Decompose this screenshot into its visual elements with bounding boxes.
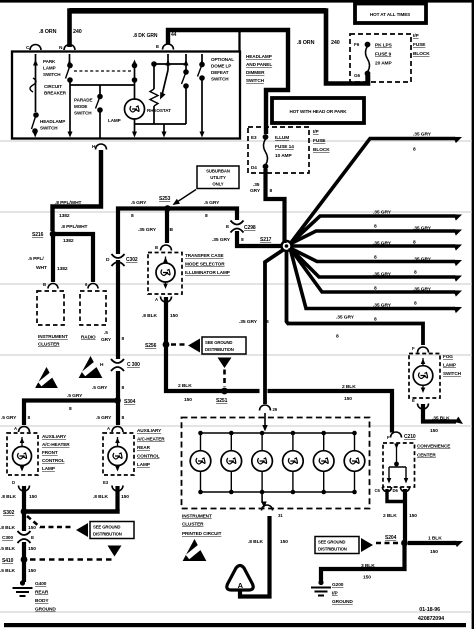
svg-text:GRY: GRY xyxy=(250,188,261,194)
svg-text:.5: .5 xyxy=(104,330,108,336)
svg-text:150: 150 xyxy=(184,397,192,403)
svg-text:REAR: REAR xyxy=(137,445,151,450)
svg-text:FOG: FOG xyxy=(443,354,453,359)
svg-text:A/C-HEATER: A/C-HEATER xyxy=(42,442,70,447)
svg-text:FRONT: FRONT xyxy=(42,450,58,455)
svg-text:SWITCH: SWITCH xyxy=(74,111,92,116)
svg-text:N: N xyxy=(59,45,63,51)
svg-text:DEFEAT: DEFEAT xyxy=(211,70,229,75)
svg-text:C302: C302 xyxy=(126,257,138,263)
svg-text:MODE: MODE xyxy=(74,104,87,109)
svg-text:2 BLK: 2 BLK xyxy=(178,383,192,389)
svg-text:HOT AT ALL TIMES: HOT AT ALL TIMES xyxy=(370,12,410,17)
svg-text:.5 GRY: .5 GRY xyxy=(96,415,112,421)
ground ref arrow down to S410 dashes xyxy=(108,546,122,557)
terminal C xyxy=(30,45,41,51)
svg-text:PRINTED CIRCUIT: PRINTED CIRCUIT xyxy=(182,531,222,536)
svg-text:PARK: PARK xyxy=(43,59,56,64)
svg-text:H: H xyxy=(100,362,104,368)
svg-text:1382: 1382 xyxy=(59,213,70,219)
svg-text:WHT: WHT xyxy=(36,265,47,271)
ESD warning triangle 1 xyxy=(35,367,58,388)
svg-text:OPTIONAL: OPTIONAL xyxy=(211,57,234,62)
svg-text:E: E xyxy=(156,44,160,50)
svg-text:.5 GRY: .5 GRY xyxy=(92,385,108,391)
svg-text:SWITCH: SWITCH xyxy=(246,78,265,83)
svg-text:CONTROL: CONTROL xyxy=(42,458,65,463)
wire 2 BLK 150 from C6/D6 to S204 xyxy=(387,489,404,502)
ground reference triangle A xyxy=(227,566,253,591)
svg-text:B: B xyxy=(43,282,46,287)
svg-text:TRANSFER CASE: TRANSFER CASE xyxy=(185,253,224,258)
ESD warning triangle 3 xyxy=(183,539,207,561)
ESD warning triangle 2 xyxy=(79,356,103,378)
svg-text:DIMMER: DIMMER xyxy=(246,70,265,75)
page border right xyxy=(472,0,474,629)
svg-text:S304: S304 xyxy=(124,399,136,405)
svg-text:INSTRUMENT: INSTRUMENT xyxy=(182,514,212,519)
radio pin 6 xyxy=(88,284,98,289)
splice S216 xyxy=(50,231,57,238)
svg-text:.5 GRY: .5 GRY xyxy=(204,200,220,206)
svg-text:I/P: I/P xyxy=(313,129,319,135)
svg-text:8: 8 xyxy=(122,415,125,421)
svg-text:.35 GRY: .35 GRY xyxy=(212,237,231,243)
transfer case lamp pin B xyxy=(161,245,172,251)
printed circuit lamp 3 xyxy=(260,431,265,436)
svg-text:.8 PPL/WHT: .8 PPL/WHT xyxy=(61,224,88,230)
faint ruled lines xyxy=(0,141,472,612)
svg-text:LAMP: LAMP xyxy=(443,363,456,368)
ground ref from S256 (dashed) xyxy=(171,343,188,346)
svg-text:150: 150 xyxy=(430,549,438,555)
wire .35 GRY 8 branch 2 from S217 xyxy=(290,216,455,244)
svg-text:RHEOSTAT: RHEOSTAT xyxy=(147,108,171,113)
svg-text:44: 44 xyxy=(171,32,177,38)
svg-text:S216: S216 xyxy=(32,232,44,238)
svg-text:8: 8 xyxy=(131,213,134,219)
svg-text:8: 8 xyxy=(122,385,125,391)
svg-text:8: 8 xyxy=(205,213,208,219)
svg-text:ILLUM: ILLUM xyxy=(275,135,289,141)
svg-text:E: E xyxy=(226,224,230,230)
ground G200 I/P ground xyxy=(318,580,323,585)
svg-text:REAR: REAR xyxy=(35,590,49,596)
headlamp switch contacts xyxy=(33,112,39,118)
svg-text:.35: .35 xyxy=(253,182,260,188)
ground ref from S302 (dashed) xyxy=(27,516,74,527)
svg-text:BODY: BODY xyxy=(35,598,49,604)
svg-text:.35 GRY: .35 GRY xyxy=(239,319,258,325)
svg-text:.8 ORN: .8 ORN xyxy=(297,40,315,46)
svg-text:C300: C300 xyxy=(2,535,13,541)
convenience center pin F xyxy=(391,432,402,438)
svg-text:G400: G400 xyxy=(35,581,47,587)
svg-text:150: 150 xyxy=(28,568,36,574)
bottom edge arrow x134 done above; terminal H xyxy=(96,144,107,149)
svg-text:.35 GRY: .35 GRY xyxy=(373,272,392,278)
svg-text:.5 BLK: .5 BLK xyxy=(0,568,15,574)
svg-text:DISTRIBUTION: DISTRIBUTION xyxy=(93,532,122,537)
svg-text:B: B xyxy=(155,245,158,250)
svg-text:AUXILIARY: AUXILIARY xyxy=(42,434,67,439)
svg-text:G200: G200 xyxy=(332,582,344,588)
wire .35 GRY 8 branch 1 from S217 xyxy=(290,139,455,245)
svg-text:I/P: I/P xyxy=(332,591,338,597)
svg-text:.35 GRY: .35 GRY xyxy=(373,210,392,216)
svg-text:DISTRIBUTION: DISTRIBUTION xyxy=(318,547,347,552)
printed circuit lamp 2 xyxy=(229,431,234,436)
fog lamp switch pin F xyxy=(418,347,429,353)
connector C298 pin E xyxy=(231,221,244,225)
svg-text:I/P: I/P xyxy=(413,33,419,39)
svg-text:8: 8 xyxy=(266,319,269,325)
stub from wire to box top edge xyxy=(238,30,240,52)
svg-text:C6: C6 xyxy=(375,488,381,493)
front lamp pin D xyxy=(19,486,30,492)
instrument cluster pin 31 xyxy=(262,505,273,511)
svg-text:LAMP: LAMP xyxy=(108,118,121,123)
splice S251 xyxy=(221,388,228,395)
headlamp switch assembly box xyxy=(12,52,240,139)
svg-text:BREAKER: BREAKER xyxy=(44,91,67,96)
svg-text:31: 31 xyxy=(278,513,283,518)
svg-text:SWITCH: SWITCH xyxy=(443,371,462,376)
svg-text:29: 29 xyxy=(273,407,278,412)
connector C302 pin D xyxy=(112,254,125,258)
wire .8 PPL/WHT 1382 from S216 to radio xyxy=(53,234,93,282)
convenience center box xyxy=(383,443,415,487)
svg-text:C: C xyxy=(26,45,30,51)
radio box xyxy=(80,291,106,325)
wire .35 GRY 8 branch 6 from S217 xyxy=(290,248,455,277)
fog lamp switch pin E xyxy=(418,404,429,410)
svg-text:A: A xyxy=(238,581,244,590)
wire .35 GRY 8 branch 5 from S217 xyxy=(290,248,455,262)
svg-text:FUSE: FUSE xyxy=(413,42,426,48)
terminal E xyxy=(163,44,174,50)
svg-text:150: 150 xyxy=(121,494,129,500)
svg-text:BLOCK: BLOCK xyxy=(313,147,330,153)
rheostat xyxy=(151,61,157,67)
splice S204 xyxy=(401,540,408,547)
svg-text:150: 150 xyxy=(28,546,36,552)
svg-text:8: 8 xyxy=(122,336,125,342)
wire .35 GRY 8 from C298 to splice S217 xyxy=(237,231,281,246)
svg-text:SUBURBAN: SUBURBAN xyxy=(206,169,230,174)
terminal arrow x202 xyxy=(199,60,204,66)
svg-text:LAMP: LAMP xyxy=(43,66,56,71)
svg-text:S410: S410 xyxy=(2,558,14,564)
svg-text:.35 GRY: .35 GRY xyxy=(373,303,392,309)
svg-text:.8 DK GRN: .8 DK GRN xyxy=(133,33,158,39)
svg-text:DISTRIBUTION: DISTRIBUTION xyxy=(205,347,234,352)
dashed ground ref wire from S410 xyxy=(30,558,114,561)
parade mode switch xyxy=(99,85,101,96)
svg-text:AND PANEL: AND PANEL xyxy=(246,62,272,67)
pin 31 wire from bottom bus xyxy=(261,492,263,503)
pin 29 wire into printed circuit bus xyxy=(264,413,266,426)
internal bus to parade switch and lamp xyxy=(70,84,135,86)
svg-text:F: F xyxy=(387,435,390,440)
wire .5 PPL/WHT 1382 from S216 to instrument cluster xyxy=(51,236,55,282)
wire .35 GRY 8 branch 7 from S217 xyxy=(290,248,455,292)
aux a/c-heater front control lamp xyxy=(7,433,38,475)
wire .35 GRY 8 from fuse D4 to splice S217 xyxy=(266,169,285,243)
svg-text:S251: S251 xyxy=(216,398,228,404)
svg-text:.5 PPL/: .5 PPL/ xyxy=(28,256,44,262)
wire .8 ORN 240 from fuse G6 to headlamp switch terminal N xyxy=(70,11,369,84)
svg-text:150: 150 xyxy=(28,525,36,531)
svg-text:.8 BLK: .8 BLK xyxy=(0,525,15,531)
svg-text:.8 ORN: .8 ORN xyxy=(39,29,57,35)
svg-text:UTILITY: UTILITY xyxy=(210,175,226,180)
svg-text:HEADLAMP: HEADLAMP xyxy=(40,119,65,124)
svg-text:MODE SELECTOR: MODE SELECTOR xyxy=(185,262,225,267)
svg-text:10 AMP: 10 AMP xyxy=(275,153,292,159)
wire .35 GRY 8 branch 8 from S217 xyxy=(290,248,455,309)
note box SUBURBAN UTILITY ONLY xyxy=(197,166,239,189)
svg-text:ONLY: ONLY xyxy=(212,182,223,187)
svg-text:PK LPS: PK LPS xyxy=(375,43,393,49)
svg-text:GROUND: GROUND xyxy=(35,607,56,613)
svg-text:E3: E3 xyxy=(251,135,257,140)
svg-text:FUSE 14: FUSE 14 xyxy=(275,144,294,150)
internal bus lamp to dome defeat xyxy=(135,123,187,125)
svg-text:.35 GRY: .35 GRY xyxy=(413,226,432,232)
wire .8 BLK 150 from front lamp to S302 xyxy=(22,486,26,509)
svg-text:2 BLK: 2 BLK xyxy=(342,384,356,390)
printed circuit top bus xyxy=(200,432,355,434)
svg-text:SEE GROUND: SEE GROUND xyxy=(93,525,120,530)
svg-text:420872094: 420872094 xyxy=(418,616,444,622)
svg-text:8: 8 xyxy=(374,224,377,230)
svg-text:.35 GRY: .35 GRY xyxy=(373,241,392,247)
svg-text:20 AMP: 20 AMP xyxy=(375,61,392,67)
svg-text:.8 BLK: .8 BLK xyxy=(248,539,263,545)
svg-text:CONTROL: CONTROL xyxy=(137,454,160,459)
svg-text:RADIO: RADIO xyxy=(81,335,96,340)
svg-text:D6: D6 xyxy=(393,488,399,493)
svg-text:D4: D4 xyxy=(251,165,257,170)
svg-text:LAMP: LAMP xyxy=(42,466,55,471)
svg-text:8: 8 xyxy=(270,188,273,194)
convenience center pin D6 xyxy=(400,487,409,492)
wire .35 BLK 150 from fog lamp switch E xyxy=(423,404,456,422)
wire from terminal C to headlamp switch xyxy=(35,54,37,112)
wire .35 GRY 8 branch 4 from S217 xyxy=(291,244,455,248)
svg-text:8: 8 xyxy=(241,237,244,243)
svg-text:3 BLK: 3 BLK xyxy=(361,563,375,569)
svg-text:2 BLK: 2 BLK xyxy=(383,513,397,519)
wire .35 GRY 8 from S217 down to instrument cluster pin 29 xyxy=(265,250,283,404)
svg-text:.35 BLK: .35 BLK xyxy=(432,416,450,422)
svg-text:A/C-HEATER: A/C-HEATER xyxy=(137,437,165,442)
I/P fuse block with PK LPS fuse 9 (F6/G6) xyxy=(350,34,411,82)
svg-text:150: 150 xyxy=(29,494,37,500)
svg-text:BLOCK: BLOCK xyxy=(413,51,430,57)
mechanical linkage (dashed) xyxy=(74,70,131,72)
svg-text:SEE GROUND: SEE GROUND xyxy=(318,540,345,545)
svg-text:8: 8 xyxy=(414,301,417,307)
svg-text:SEE GROUND: SEE GROUND xyxy=(205,340,232,345)
svg-text:8: 8 xyxy=(69,406,72,412)
svg-text:.35 GRY: .35 GRY xyxy=(138,227,157,233)
svg-text:A: A xyxy=(14,426,17,431)
svg-text:.35 GRY: .35 GRY xyxy=(413,132,432,138)
svg-text:D: D xyxy=(106,257,110,263)
svg-text:8: 8 xyxy=(414,270,417,276)
splice S410 xyxy=(21,556,28,563)
wire .35 GRY 8 branch 3 from S217 xyxy=(290,231,455,244)
ground G400 rear body ground xyxy=(20,580,25,585)
wire 1 BLK 150 from S204 (to right) xyxy=(408,541,456,545)
wire .35 GRY 8 from S217 to fog lamp switch xyxy=(287,251,424,345)
svg-text:150: 150 xyxy=(363,575,371,581)
instrument cluster box xyxy=(37,291,64,325)
instrument cluster pin B xyxy=(48,284,58,289)
wire .5 GRY 8 bus from headlamp switch xyxy=(53,150,102,231)
svg-text:GROUND: GROUND xyxy=(332,599,353,605)
dome defeat pole 2 xyxy=(201,54,203,64)
svg-text:E: E xyxy=(412,398,415,403)
I/P fuse block with ILLUM fuse 14 (E3/D4) xyxy=(248,127,309,173)
svg-text:.35 GRY: .35 GRY xyxy=(413,287,432,293)
svg-text:.5 BLK: .5 BLK xyxy=(0,546,15,552)
svg-text:1 BLK: 1 BLK xyxy=(428,536,442,542)
svg-text:.5 GRY: .5 GRY xyxy=(131,200,147,206)
printed circuit lamp 5 xyxy=(321,431,326,436)
svg-text:CIRCUIT: CIRCUIT xyxy=(44,84,62,89)
svg-text:S302: S302 xyxy=(3,510,15,516)
svg-text:150: 150 xyxy=(280,539,288,545)
svg-text:1382: 1382 xyxy=(57,266,68,272)
svg-text:E: E xyxy=(31,535,35,541)
svg-text:SWITCH: SWITCH xyxy=(211,77,229,82)
svg-text:.8 BLK: .8 BLK xyxy=(1,494,16,500)
svg-text:1382: 1382 xyxy=(63,238,74,244)
svg-text:INSTRUMENT: INSTRUMENT xyxy=(38,334,68,339)
wire 2 BLK 150 from S256 to S251 and convenience center xyxy=(166,346,260,391)
wire .5 GRY 8 from S304 to front aux lamp xyxy=(24,401,118,426)
svg-text:DOME LP: DOME LP xyxy=(211,64,231,69)
svg-text:CONVENIENCE: CONVENIENCE xyxy=(417,444,450,449)
ground ref from S204 (dashed) xyxy=(376,542,399,545)
splice S302 and bus xyxy=(24,509,118,512)
aux a/c-heater front control lamp pin A xyxy=(19,427,30,433)
printed circuit lamp 1 xyxy=(198,431,203,436)
svg-text:150: 150 xyxy=(170,313,178,319)
svg-text:LAMP: LAMP xyxy=(137,462,150,467)
svg-text:.8 BLK: .8 BLK xyxy=(93,494,108,500)
svg-text:HEADLAMP: HEADLAMP xyxy=(246,54,272,59)
dome defeat pole 1 xyxy=(185,54,187,72)
svg-text:F6: F6 xyxy=(354,42,360,47)
svg-text:SWITCH: SWITCH xyxy=(40,126,58,131)
svg-text:SWITCH: SWITCH xyxy=(43,72,61,77)
svg-text:S256: S256 xyxy=(145,343,157,349)
svg-text:E3: E3 xyxy=(103,480,109,485)
svg-text:FUSE: FUSE xyxy=(313,138,326,144)
svg-text:8: 8 xyxy=(336,334,339,340)
svg-text:A: A xyxy=(107,426,110,431)
wire .35 GRY B from S253 to transfer case lamp xyxy=(165,210,169,243)
printed circuit lamp 4 xyxy=(291,431,296,436)
aux a/c-heater rear control lamp xyxy=(103,433,134,475)
svg-text:CENTER: CENTER xyxy=(417,453,436,458)
wire .5 BLK 150 from C300 to S410 xyxy=(22,542,26,557)
bus .5 GRY with splice S253 xyxy=(118,209,237,255)
svg-text:C298: C298 xyxy=(244,225,256,231)
instrument cluster printed circuit box xyxy=(182,418,370,509)
svg-text:01-18-96: 01-18-96 xyxy=(419,607,440,613)
svg-text:HOT WITH HEAD OR PARK: HOT WITH HEAD OR PARK xyxy=(289,109,347,114)
svg-text:D: D xyxy=(12,480,15,485)
stub to bottom edge x164 xyxy=(163,124,165,134)
svg-text:B: B xyxy=(170,227,174,233)
svg-text:8: 8 xyxy=(374,255,377,261)
wire .5 BLK 150 from S410 to G400 xyxy=(22,561,26,582)
convenience center pin C6 xyxy=(382,487,391,492)
terminal arrow x134 xyxy=(132,60,137,66)
svg-text:CLUSTER: CLUSTER xyxy=(182,522,204,527)
svg-text:240: 240 xyxy=(73,29,82,35)
svg-text:.5 GRY: .5 GRY xyxy=(1,415,17,421)
svg-text:ILLUMINATOR LAMP: ILLUMINATOR LAMP xyxy=(185,270,230,275)
svg-text:S253: S253 xyxy=(159,196,171,202)
svg-text:S204: S204 xyxy=(385,535,397,541)
rheostat wiper arrow from terminal E wire xyxy=(167,54,169,70)
tag HOT WITH HEAD OR PARK xyxy=(272,98,364,123)
svg-text:240: 240 xyxy=(331,40,340,46)
svg-text:150: 150 xyxy=(409,513,417,519)
svg-text:AUXILIARY: AUXILIARY xyxy=(137,428,162,433)
svg-text:C210: C210 xyxy=(404,434,416,440)
svg-text:F: F xyxy=(412,346,415,351)
svg-text:8: 8 xyxy=(413,147,416,153)
instrument cluster pin 29 xyxy=(260,405,271,410)
terminal N xyxy=(64,45,75,51)
aux a/c-heater rear control lamp pin A xyxy=(112,427,123,433)
svg-text:CLUSTER: CLUSTER xyxy=(38,342,60,347)
connector C300 pin E (ground side) xyxy=(18,531,31,535)
svg-text:.8 BLK: .8 BLK xyxy=(142,313,157,319)
transfer case mode selector illuminator lamp xyxy=(148,253,182,295)
wire .8 BLK 150 from S302 to C300 xyxy=(22,513,26,531)
svg-text:150: 150 xyxy=(344,396,352,402)
wire 3 BLK 150 from S204 to G200 xyxy=(321,545,405,581)
panel illumination lamp xyxy=(134,64,136,99)
wire .8 BLK 150 from pin 31 to ground ref A xyxy=(240,516,270,597)
page border top xyxy=(0,0,474,3)
svg-text:.8 PPL/WHT: .8 PPL/WHT xyxy=(55,200,82,206)
wire .5 GRY from S253 bus down (C302 to C300) xyxy=(116,260,120,359)
page border bottom xyxy=(4,623,466,627)
svg-text:FUSE 9: FUSE 9 xyxy=(375,52,392,58)
wire N switch to bottom edge xyxy=(69,80,71,134)
svg-text:GRY: GRY xyxy=(101,337,112,343)
svg-text:150: 150 xyxy=(430,428,438,434)
svg-text:G6: G6 xyxy=(354,73,360,78)
wire .8 DK GRN 44 from dome-lamp circuit to terminal E xyxy=(168,30,288,134)
svg-text:S217: S217 xyxy=(260,237,272,243)
circuit breaker symbol xyxy=(30,78,36,92)
printed circuit lamp 6 xyxy=(352,431,357,436)
svg-text:C 300: C 300 xyxy=(127,362,140,368)
splice S304 xyxy=(114,397,121,404)
transfer case lamp pin A xyxy=(161,297,172,303)
park lamp switch on N wire xyxy=(69,54,71,64)
